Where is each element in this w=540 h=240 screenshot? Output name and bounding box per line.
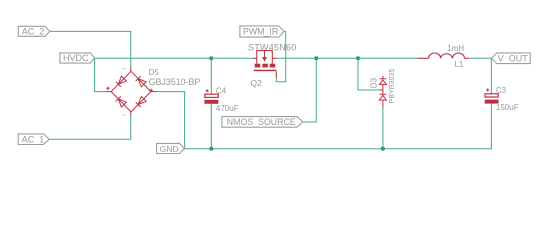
svg-text:1mH: 1mH: [447, 44, 464, 53]
svg-text:V_OUT: V_OUT: [498, 53, 529, 63]
svg-text:C3: C3: [496, 86, 507, 95]
svg-text:GND: GND: [160, 144, 179, 154]
svg-text:D3: D3: [370, 77, 379, 88]
svg-text:L1: L1: [455, 60, 464, 69]
svg-text:D5: D5: [149, 68, 160, 77]
svg-text:C4: C4: [216, 86, 227, 95]
svg-text:470uF: 470uF: [216, 104, 239, 113]
svg-text:~: ~: [122, 112, 126, 119]
svg-text:STW45N60: STW45N60: [248, 43, 297, 53]
svg-text:HVDC: HVDC: [63, 53, 89, 63]
svg-text:PBYR3035: PBYR3035: [389, 69, 396, 104]
svg-text:NMOS_SOURCE: NMOS_SOURCE: [227, 117, 296, 127]
svg-text:Q2: Q2: [251, 78, 263, 88]
svg-text:GBJ3510-BP: GBJ3510-BP: [149, 77, 201, 87]
svg-text:PWM_IR: PWM_IR: [243, 27, 278, 37]
svg-text:~: ~: [122, 66, 126, 73]
svg-text:150uF: 150uF: [496, 103, 519, 112]
svg-text:AC_2: AC_2: [22, 27, 45, 37]
svg-text:AC_1: AC_1: [22, 135, 45, 145]
